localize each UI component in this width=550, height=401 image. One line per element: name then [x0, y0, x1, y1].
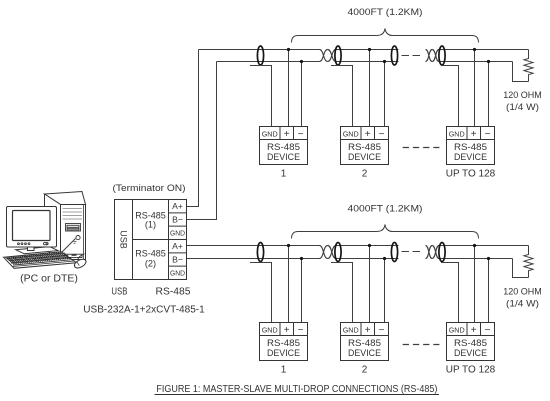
- svg-text:GND: GND: [449, 129, 465, 138]
- svg-text:RS-485: RS-485: [267, 142, 300, 152]
- svg-text:−: −: [298, 129, 304, 140]
- svg-text:USB: USB: [119, 230, 129, 249]
- svg-text:GND: GND: [449, 325, 465, 334]
- svg-text:2: 2: [362, 365, 368, 376]
- svg-text:4000FT (1.2KM): 4000FT (1.2KM): [348, 203, 423, 214]
- svg-text:GND: GND: [343, 325, 359, 334]
- svg-text:(PC or DTE): (PC or DTE): [20, 272, 78, 284]
- svg-text:+: +: [365, 325, 371, 336]
- svg-text:UP TO 128: UP TO 128: [446, 169, 496, 180]
- svg-text:+: +: [471, 325, 477, 336]
- svg-text:USB-232A-1+2xCVT-485-1: USB-232A-1+2xCVT-485-1: [83, 305, 205, 316]
- svg-text:−: −: [379, 325, 385, 336]
- svg-text:RS-485: RS-485: [454, 142, 487, 152]
- svg-text:1: 1: [281, 169, 287, 180]
- svg-text:+: +: [365, 129, 371, 140]
- svg-text:4000FT (1.2KM): 4000FT (1.2KM): [348, 7, 423, 18]
- svg-text:1: 1: [281, 365, 287, 376]
- svg-text:GND: GND: [262, 129, 278, 138]
- svg-text:RS-485: RS-485: [348, 142, 381, 152]
- svg-text:DEVICE: DEVICE: [454, 348, 487, 358]
- svg-text:−: −: [298, 325, 304, 336]
- svg-text:DEVICE: DEVICE: [267, 152, 300, 162]
- svg-text:DEVICE: DEVICE: [267, 348, 300, 358]
- svg-text:−: −: [485, 129, 491, 140]
- svg-text:(1): (1): [145, 220, 156, 230]
- svg-text:GND: GND: [170, 229, 185, 238]
- svg-text:−: −: [485, 325, 491, 336]
- svg-text:FIGURE 1: MASTER-SLAVE MULTI-D: FIGURE 1: MASTER-SLAVE MULTI-DROP CONNEC…: [156, 384, 437, 395]
- svg-text:GND: GND: [262, 325, 278, 334]
- svg-text:(Terminator ON): (Terminator ON): [113, 183, 186, 194]
- svg-text:A+: A+: [172, 201, 183, 211]
- svg-text:DEVICE: DEVICE: [348, 348, 381, 358]
- svg-text:RS-485: RS-485: [135, 249, 166, 259]
- svg-text:120 OHM: 120 OHM: [503, 90, 542, 100]
- svg-text:+: +: [284, 129, 290, 140]
- svg-text:+: +: [471, 129, 477, 140]
- svg-text:+: +: [284, 325, 290, 336]
- svg-text:A+: A+: [172, 241, 183, 251]
- svg-text:(1/4 W): (1/4 W): [506, 102, 539, 112]
- svg-text:2: 2: [362, 169, 368, 180]
- svg-text:(1/4 W): (1/4 W): [506, 299, 539, 309]
- svg-text:DEVICE: DEVICE: [348, 152, 381, 162]
- svg-text:RS-485: RS-485: [454, 338, 487, 348]
- svg-text:USB: USB: [111, 287, 127, 298]
- svg-text:UP TO 128: UP TO 128: [446, 365, 496, 376]
- svg-text:RS-485: RS-485: [156, 287, 191, 298]
- svg-text:−: −: [379, 129, 385, 140]
- svg-text:(2): (2): [145, 259, 156, 269]
- svg-text:GND: GND: [343, 129, 359, 138]
- svg-text:RS-485: RS-485: [267, 338, 300, 348]
- svg-text:GND: GND: [170, 269, 185, 278]
- svg-text:RS-485: RS-485: [348, 338, 381, 348]
- svg-text:120 OHM: 120 OHM: [503, 287, 542, 297]
- svg-text:B−: B−: [172, 214, 183, 224]
- svg-text:DEVICE: DEVICE: [454, 152, 487, 162]
- svg-text:B−: B−: [172, 254, 183, 264]
